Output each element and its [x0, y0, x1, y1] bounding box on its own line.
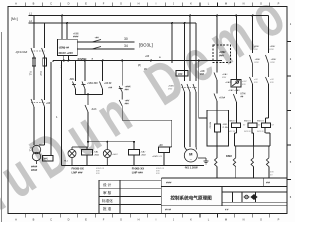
svg-text:6: 6	[290, 195, 292, 199]
wire: motor phase W	[195, 23, 197, 81]
label a node	[92, 57, 94, 61]
label HL1	[64, 161, 69, 163]
label 1 wire	[56, 115, 58, 119]
ruler ticks right	[287, 42, 291, 180]
wire: bus corner down	[51, 61, 53, 157]
label KA contact right	[219, 97, 226, 100]
label KT1 contact	[225, 81, 240, 92]
terminal box X1	[43, 156, 54, 162]
svg-text:B: B	[33, 2, 35, 6]
svg-text:M: M	[225, 2, 227, 6]
svg-text:##: ##	[270, 174, 273, 176]
svg-text:#/## ##: #/## ##	[244, 131, 252, 133]
contact KM2b	[250, 64, 253, 84]
svg-text:+KM1: +KM1	[168, 86, 175, 88]
svg-text:##: ##	[272, 125, 275, 127]
ground PE	[198, 158, 209, 164]
svg-text:+KM#: +KM#	[271, 59, 278, 61]
svg-text:A: A	[15, 218, 17, 222]
svg-text:5: 5	[290, 160, 292, 164]
svg-text:## ##: ## ##	[165, 209, 172, 212]
svg-text:~: ~	[190, 157, 193, 162]
label KM2 top	[254, 46, 262, 64]
node: motor taps on L1	[184, 15, 192, 25]
title block bottom row marks	[165, 209, 229, 212]
svg-text:+KA2 +KA3: +KA2 +KA3	[228, 89, 240, 92]
wire: aux to bottom bus	[236, 167, 269, 178]
wire: PS out bottom 1	[63, 56, 65, 61]
node: KT tap	[235, 15, 237, 17]
contact K30	[92, 40, 101, 43]
wire: FR aux to bus	[216, 167, 218, 178]
svg-text:M: M	[225, 218, 227, 222]
label TC bold	[31, 165, 38, 172]
svg-text:KM/##: KM/##	[209, 122, 211, 129]
contact KM aux1	[233, 146, 236, 167]
svg-text:设 计: 设 计	[103, 182, 112, 187]
node: KA tap	[216, 15, 218, 17]
svg-text:[M=]: [M=]	[11, 17, 18, 21]
label incoming	[11, 17, 18, 21]
svg-text:KM#: KM#	[226, 154, 232, 158]
contact KA seal	[100, 82, 103, 90]
contact KM2	[250, 55, 253, 64]
label spec brace2	[156, 168, 165, 175]
svg-text:H: H	[138, 2, 140, 6]
wire no. box 1	[176, 71, 188, 77]
svg-text:#/## ##: #/## ##	[257, 131, 265, 133]
wire: down to lamp bus	[87, 112, 89, 142]
node: spare tap	[171, 22, 173, 24]
svg-text:/###: /###	[271, 62, 276, 64]
wire 34: PS output lower	[77, 48, 134, 50]
label X1	[44, 158, 48, 161]
label FU1	[29, 71, 43, 76]
svg-text:2: 2	[61, 65, 63, 69]
bus L2	[29, 22, 197, 24]
svg-text:+KM1 ###: +KM1 ###	[152, 156, 163, 158]
svg-text:34: 34	[124, 44, 128, 48]
contact SB3	[119, 86, 123, 92]
label M tilde	[190, 157, 193, 162]
label coil KA5	[257, 121, 275, 134]
title block table	[99, 178, 287, 214]
contactor KM1 main contacts	[182, 84, 197, 92]
svg-text:###: ###	[270, 172, 274, 174]
contact KT1 delayed	[233, 87, 236, 102]
svg-text:-QF1/3A#: -QF1/3A#	[15, 50, 28, 54]
label PS text	[59, 46, 73, 56]
contact KA	[214, 94, 217, 102]
svg-text:L: L	[208, 2, 210, 6]
wire: QF1 pole1 drop	[33, 16, 35, 49]
svg-text:-FR1: -FR1	[223, 124, 229, 126]
wire: pole1 down to TC1	[33, 107, 35, 145]
svg-text:2: 2	[290, 57, 292, 61]
label K30	[95, 37, 100, 40]
label KA1 coil	[94, 151, 100, 157]
svg-text:B: B	[33, 218, 35, 222]
svg-text:/1.5A: /1.5A	[223, 126, 229, 129]
svg-text:+##/: +##/	[242, 81, 247, 83]
svg-text:标准化: 标准化	[102, 198, 113, 203]
svg-text:+##: +##	[95, 37, 100, 40]
svg-text:控制系统电气原理图: 控制系统电气原理图	[170, 195, 212, 202]
wire: KA branch mid	[216, 80, 218, 94]
label KA3 contact	[91, 108, 97, 111]
bus N return	[62, 165, 205, 167]
contact KM aux3	[266, 146, 269, 167]
svg-text:H: H	[138, 218, 140, 222]
label KA upper	[222, 73, 228, 79]
bus L1	[29, 15, 269, 17]
node: KA3 drop	[87, 93, 89, 95]
wire: pole2 down to TC1	[39, 107, 45, 145]
coil KA5	[262, 118, 271, 133]
svg-text:##: ##	[241, 95, 244, 98]
svg-text:O: O	[260, 218, 262, 222]
wire: left scan edge	[1, 32, 3, 222]
node: L1/PS junction	[61, 15, 63, 17]
svg-text:###: ###	[200, 73, 205, 76]
svg-text:TC1: TC1	[29, 147, 32, 152]
svg-text:###: ###	[266, 182, 271, 185]
wire: SB2 branch	[84, 61, 86, 82]
svg-text:+KA#: +KA#	[219, 97, 226, 100]
svg-text:-KA3: -KA3	[91, 108, 97, 111]
svg-text:E: E	[85, 218, 87, 222]
svg-text:A: A	[15, 2, 17, 6]
svg-text:KM#/##: KM#/##	[257, 121, 265, 123]
svg-text:+KA#: +KA#	[141, 154, 147, 157]
svg-text:+KA2: +KA2	[225, 81, 231, 84]
label KM over PS	[73, 33, 79, 39]
wire: KT branch	[235, 16, 237, 80]
lamp HL1	[68, 142, 88, 166]
label 34	[124, 44, 128, 48]
label spec lamp2	[132, 167, 144, 175]
ruler letters top	[15, 2, 280, 6]
transformer TC1	[32, 145, 40, 164]
svg-text:C: C	[50, 218, 52, 222]
breaker QF1	[31, 48, 45, 56]
ruler ticks top	[25, 3, 269, 7]
svg-text:J: J	[173, 218, 175, 222]
wire: PS feed from L2	[66, 23, 68, 39]
wire: to KM1 coil	[122, 106, 172, 147]
label L1	[29, 12, 32, 16]
label SB1	[69, 78, 75, 81]
svg-text:####: ####	[73, 35, 79, 38]
svg-text:D: D	[68, 218, 70, 222]
label HL2	[112, 154, 118, 156]
label QF2	[46, 102, 51, 105]
svg-text:I: I	[156, 2, 157, 6]
label TC1	[29, 147, 32, 152]
label 30	[124, 37, 128, 41]
label FR1	[223, 124, 229, 129]
label KM1 coil	[152, 144, 163, 158]
label BO3L	[139, 43, 153, 48]
wire: aux feed to FR	[199, 61, 207, 119]
contact KA3	[85, 94, 88, 112]
svg-text:J: J	[173, 2, 175, 6]
title block row1 marks	[166, 182, 271, 185]
svg-text:LNP ###: LNP ###	[132, 170, 143, 174]
svg-text:K: K	[190, 218, 192, 222]
contact KA1	[119, 92, 122, 106]
label aux feed	[200, 70, 205, 76]
svg-text:###: ###	[96, 173, 100, 175]
coil KA1	[82, 147, 93, 166]
svg-text:a: a	[92, 57, 94, 61]
wire: QF1 pole2 drop	[44, 23, 46, 48]
wire: KT to coil KA3	[235, 102, 237, 118]
label right branch bottoms	[270, 172, 274, 177]
svg-text:LNP ###: LNP ###	[72, 170, 83, 174]
label KM aux	[226, 154, 232, 158]
wire: seal out	[102, 89, 104, 94]
wire: pole2 down to QF2	[44, 66, 46, 100]
label M1	[189, 152, 193, 157]
svg-text:FU2: FU2	[39, 71, 42, 76]
svg-text:+##: +##	[254, 79, 258, 81]
wire: FR to bus	[216, 146, 218, 158]
svg-text:###: ###	[125, 102, 130, 105]
wire: node line	[76, 93, 103, 95]
svg-text:24VDC: 24VDC	[78, 57, 87, 61]
wire: KM2 branch	[252, 16, 254, 53]
svg-text:+## ##: +## ##	[104, 82, 112, 85]
svg-text:N: N	[243, 2, 245, 6]
svg-text:###: ###	[270, 82, 274, 84]
wire: KM3 to coil	[266, 84, 269, 118]
svg-text:[BO3L]: [BO3L]	[139, 43, 153, 48]
svg-text:批 准: 批 准	[103, 206, 112, 211]
power supply PS1 box	[58, 39, 78, 55]
label KT1	[242, 81, 247, 86]
svg-text:K: K	[190, 2, 192, 6]
svg-text:/###: /###	[219, 55, 224, 58]
wire 30: PS output upper	[77, 41, 134, 43]
ruler numbers right	[290, 22, 292, 199]
svg-text:-KA#: -KA#	[141, 151, 147, 154]
title block row labels	[102, 182, 113, 211]
svg-text:##: ##	[243, 125, 246, 127]
svg-text:-M1 1.1KW: -M1 1.1KW	[184, 166, 198, 170]
svg-text:##: ##	[258, 125, 261, 127]
svg-text:+KM#: +KM#	[255, 59, 262, 61]
wire: into FR box	[216, 101, 218, 124]
svg-text:####: ####	[31, 168, 38, 172]
coil KM1	[159, 147, 170, 166]
wire: coil commons	[235, 133, 271, 146]
svg-text:P: P	[278, 218, 280, 222]
svg-text:3: 3	[290, 91, 292, 95]
wire: SB1 branch	[75, 61, 77, 82]
label coil KA4	[244, 121, 261, 134]
svg-text:30: 30	[124, 37, 128, 41]
svg-text:#:#: #:#	[225, 209, 229, 212]
coil KA3	[232, 118, 241, 133]
svg-text:KM#/##: KM#/##	[244, 121, 252, 123]
wire: KM2 to coil	[252, 84, 254, 118]
contact KM aux2	[251, 146, 254, 167]
svg-text:###: ###	[125, 88, 130, 91]
title block right top edge	[161, 178, 287, 187]
label coil KA3	[229, 121, 247, 134]
svg-text:DC2V +24V: DC2V +24V	[59, 51, 73, 55]
wire: SB1 out	[75, 89, 77, 94]
lamp bus	[87, 141, 134, 143]
wire: pole1 down to QF2	[33, 66, 35, 100]
label 2 wire	[61, 65, 63, 69]
button SB2	[82, 82, 86, 90]
svg-text:#/## ##: #/## ##	[229, 131, 237, 133]
svg-text:C: C	[50, 2, 52, 6]
wire: KM3 branch	[268, 16, 270, 53]
wire: PS feed from L1	[61, 16, 63, 40]
ruler ticks bottom	[25, 214, 269, 218]
label SB2	[87, 82, 112, 85]
timer KT1	[231, 80, 241, 88]
svg-text:I: I	[156, 218, 157, 222]
svg-text:+##: +##	[108, 87, 113, 90]
switch QF2	[31, 99, 45, 107]
bus 24VDC	[53, 60, 222, 62]
wire: motor phase U	[184, 23, 186, 81]
node: KM2 tap	[252, 15, 254, 17]
wire: SB2 out	[84, 89, 86, 94]
svg-text:-|DM|-##: -|DM|-##	[59, 46, 70, 50]
label M1 name	[184, 166, 198, 170]
border frame	[8, 7, 287, 214]
enclosure FR1 box	[207, 110, 229, 146]
label KA1 contact	[125, 100, 130, 106]
label KT wire	[241, 93, 246, 99]
svg-text:D: D	[68, 2, 70, 6]
dashed box KM module	[213, 45, 231, 63]
label spec lamp1	[72, 167, 84, 175]
svg-text:###: ###	[242, 84, 246, 86]
svg-text:L: L	[208, 218, 210, 222]
overload FR1	[215, 124, 221, 146]
svg-text:[##]: [##]	[44, 158, 48, 161]
label wire no 1	[178, 72, 183, 76]
wire: motor phase V	[189, 16, 191, 82]
label KM module	[219, 51, 226, 58]
coil KA2	[129, 142, 140, 166]
node: L2/PS junction	[66, 22, 68, 24]
coil KA4	[248, 118, 257, 133]
label 24VDC	[78, 57, 87, 61]
title block drawing name	[170, 195, 212, 202]
projection symbol	[244, 195, 258, 200]
label KA2 coil	[141, 151, 147, 157]
label KM1 contacts	[168, 86, 175, 91]
svg-text:+##: +##	[270, 79, 274, 81]
label SB3	[108, 86, 131, 92]
svg-text:###: ###	[156, 173, 160, 175]
svg-text:KM#/##: KM#/##	[229, 121, 237, 123]
svg-text:P: P	[278, 2, 280, 6]
node: bus joints	[63, 60, 200, 62]
wire: PS out bottom 2	[68, 56, 70, 61]
wire: branch KM coil	[121, 61, 123, 86]
wire: phases to motor	[185, 92, 197, 147]
svg-text:###: ###	[178, 72, 183, 76]
contact KM3b	[266, 64, 269, 84]
label KM3 mid	[270, 79, 274, 84]
svg-text:G: G	[120, 218, 122, 222]
svg-text:+KM#: +KM#	[270, 46, 277, 48]
svg-text:-KA1: -KA1	[94, 151, 100, 154]
svg-text:-SB1: -SB1	[69, 78, 75, 81]
motor M1	[184, 147, 197, 162]
svg-text:+##: +##	[159, 144, 164, 147]
svg-text:+KA#: +KA#	[222, 73, 228, 76]
fuse FU1	[32, 56, 46, 68]
contact K34	[92, 47, 101, 50]
svg-text:+SB2 ###: +SB2 ###	[87, 82, 98, 85]
svg-text:####: ####	[166, 182, 172, 185]
label L2	[29, 19, 32, 23]
label KM2 mid	[254, 79, 258, 84]
label KM3 top	[270, 46, 278, 64]
svg-text:N: N	[243, 218, 245, 222]
svg-text:+KM#: +KM#	[254, 46, 261, 48]
wire: PS- down	[61, 61, 63, 166]
svg-text:FU1: FU1	[29, 71, 32, 76]
wire: spare tap	[171, 23, 173, 63]
svg-text:+##: +##	[145, 55, 150, 58]
wire: KA branch	[216, 16, 218, 73]
contact KA upper	[214, 73, 217, 81]
svg-text:+KA2: +KA2	[94, 154, 100, 157]
svg-text:O: O	[260, 2, 262, 6]
svg-text:F: F	[103, 2, 105, 6]
contact KM3	[266, 55, 269, 64]
wire: seal branch	[102, 61, 104, 82]
label a2 node	[159, 55, 161, 59]
svg-text:###: ###	[254, 82, 258, 84]
contact FR aux	[215, 158, 218, 167]
svg-text:4: 4	[290, 126, 292, 130]
label +## contact	[138, 55, 150, 71]
label spec brace1	[96, 168, 105, 175]
lamp HL2	[103, 142, 111, 166]
svg-text:F: F	[103, 218, 105, 222]
button SB1	[72, 82, 76, 90]
svg-text:E: E	[85, 2, 87, 6]
svg-text:+##: +##	[46, 102, 51, 105]
svg-text:[#]: [#]	[138, 64, 141, 67]
svg-text:L1: L1	[29, 12, 32, 16]
node: lamp bus joints	[87, 141, 135, 143]
svg-text:+HL2: +HL2	[112, 154, 118, 156]
svg-text:/###: /###	[255, 62, 260, 64]
label FR1 side	[209, 122, 211, 129]
svg-text:G: G	[120, 2, 122, 6]
svg-text:审 核: 审 核	[103, 190, 112, 195]
ruler letters bottom	[15, 218, 280, 222]
label QF1	[15, 50, 28, 54]
